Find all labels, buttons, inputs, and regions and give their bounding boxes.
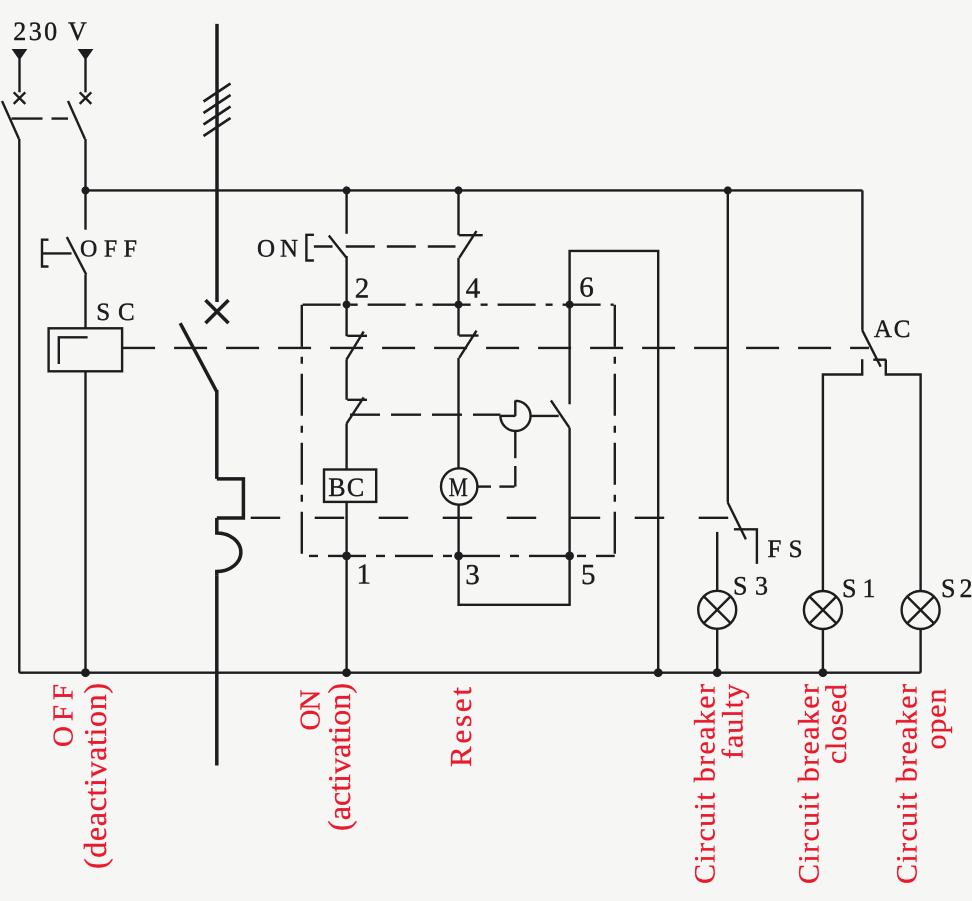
contact below 4 NC	[459, 305, 479, 469]
svg-text:closed: closed	[820, 684, 853, 764]
svg-text:(activation): (activation)	[321, 683, 357, 831]
S3 wire lower	[716, 629, 718, 673]
FS branch wire	[727, 190, 729, 502]
red label Circuit breaker closed	[793, 684, 853, 884]
release linkage dashed	[251, 517, 737, 519]
dashdot box bottom	[309, 555, 615, 557]
OFF contact blade	[67, 237, 86, 275]
red label Circuit breaker open	[890, 684, 952, 884]
svg-text:OFF: OFF	[80, 236, 137, 262]
svg-text:2: 2	[355, 273, 370, 305]
FS latch bracket	[734, 529, 757, 564]
wire 6 to reset loop	[570, 251, 659, 673]
latch pivot symbol	[500, 400, 530, 431]
AC left branch wire	[823, 359, 862, 591]
top bus wire	[86, 189, 863, 191]
svg-text:ON: ON	[257, 236, 298, 263]
svg-text:FS: FS	[768, 536, 803, 563]
BC wire lower	[345, 502, 347, 673]
svg-text:S3: S3	[733, 572, 768, 601]
wire 6 upper	[568, 305, 570, 405]
S3 wire upper	[716, 532, 718, 591]
svg-text:SC: SC	[96, 299, 135, 326]
wire left vertical	[18, 139, 20, 673]
supply arrow L1	[12, 49, 28, 92]
SC wire to bus	[84, 371, 86, 672]
dashdot box right	[614, 305, 616, 556]
red label OFF deactivation	[48, 683, 113, 869]
OFF button actuator	[42, 240, 72, 267]
supply arrow L2	[78, 49, 94, 92]
FS contact blade	[728, 503, 746, 540]
lamp S1	[804, 591, 842, 629]
red label Circuit breaker faulty	[688, 684, 749, 884]
latch linkage dashed	[350, 414, 500, 416]
svg-text:1: 1	[357, 559, 372, 591]
M wire lower	[457, 505, 459, 556]
coil SC	[49, 328, 123, 371]
main linkage dashed	[122, 347, 869, 349]
svg-text:3: 3	[465, 559, 480, 591]
svg-text:BC: BC	[328, 473, 364, 502]
svg-text:AC: AC	[874, 316, 911, 343]
terminal x mark L1	[14, 92, 26, 104]
svg-text:M: M	[449, 473, 468, 502]
dashdot box top	[303, 304, 614, 306]
wire 5 lower	[568, 428, 570, 556]
terminal x mark L2	[80, 92, 92, 104]
ON button actuator	[306, 235, 332, 261]
contact 2 upper NC	[347, 305, 368, 400]
M link dashes	[477, 431, 515, 486]
svg-text:6: 6	[579, 272, 594, 304]
breaker pole wire middle	[215, 390, 219, 479]
svg-text:230 V: 230 V	[13, 17, 87, 46]
NC contact above 4	[459, 190, 483, 304]
AC right contact bar	[873, 359, 886, 361]
pole switch blade L2	[68, 101, 85, 139]
magnetic release arc	[217, 518, 241, 576]
dashdot box left	[301, 305, 303, 554]
overcurrent release jog	[217, 479, 244, 518]
red label ON activation	[295, 683, 358, 831]
latch contact blade	[551, 400, 569, 427]
breaker x mark	[206, 300, 229, 323]
svg-text:S2: S2	[941, 574, 972, 603]
latch output wire	[531, 415, 559, 417]
breaker hatch marks	[204, 84, 231, 137]
contact 2 lower NC	[347, 397, 368, 469]
svg-text:4: 4	[466, 273, 481, 305]
svg-text:open: open	[920, 689, 953, 750]
coil BC	[324, 470, 376, 502]
lamp S3	[698, 591, 736, 629]
motor M	[441, 468, 477, 504]
breaker blade	[180, 323, 217, 392]
bottom bus wire	[19, 672, 920, 674]
svg-text:S1: S1	[842, 574, 876, 603]
OFF wire upper	[84, 190, 86, 229]
svg-text:5: 5	[581, 559, 596, 591]
wire L2 down to bus	[84, 139, 86, 190]
reset U loop	[459, 556, 570, 605]
pole linkage dashed	[12, 117, 69, 119]
OFF wire lower	[84, 275, 86, 329]
breaker pole wire bottom	[215, 576, 219, 766]
S1 wire lower	[822, 629, 824, 673]
svg-text:(deactivation): (deactivation)	[77, 683, 113, 869]
svg-text:OFF: OFF	[48, 684, 80, 747]
svg-text:Circuit breaker: Circuit breaker	[890, 684, 923, 884]
svg-text:faulty: faulty	[717, 684, 750, 759]
ON contact blade	[329, 236, 347, 258]
breaker pole thick wire top	[215, 24, 219, 302]
AC changeover blade	[862, 331, 880, 367]
svg-text:Reset: Reset	[443, 687, 478, 767]
S2 wire lower	[919, 629, 921, 673]
lamp S2	[902, 591, 940, 629]
pole switch blade L1	[2, 101, 19, 139]
AC right branch wire	[886, 360, 921, 592]
ON wire lower	[345, 256, 347, 305]
ON linkage dashed	[346, 245, 456, 247]
AC common wire	[861, 190, 863, 330]
ON wire upper	[345, 190, 347, 233]
